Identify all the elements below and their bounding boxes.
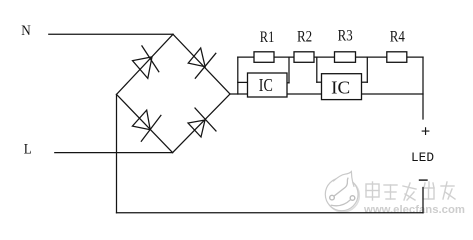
wire v2 node R1-R2	[288, 57, 290, 83]
wire resistor row	[238, 56, 423, 58]
wire bridge side bottom-right	[173, 94, 230, 153]
wire v4 node R3-R4	[366, 57, 368, 82]
svg-text:R4: R4	[390, 26, 405, 45]
wire L input	[55, 152, 173, 154]
svg-text:R2: R2	[297, 26, 312, 45]
wire bridge side top-right	[173, 34, 230, 94]
wire IC1 right pin stub	[287, 82, 289, 84]
resistor R2	[294, 52, 314, 63]
wire N input	[49, 33, 173, 35]
svg-text:+: +	[421, 124, 431, 142]
watermark logo node B	[350, 196, 355, 201]
wire IC2 right pin stub	[362, 81, 368, 83]
wire negative drop	[116, 94, 118, 212]
diode D2	[188, 48, 216, 78]
watermark logo flame	[334, 172, 354, 187]
svg-text:www.elecfans.com: www.elecfans.com	[363, 204, 465, 216]
wire bridge side bottom-left	[117, 94, 173, 152]
svg-text:LED: LED	[411, 150, 434, 165]
svg-text:N: N	[21, 23, 31, 39]
LED minus terminal	[420, 179, 428, 181]
watermark logo circle (elecfans)	[327, 179, 360, 212]
wire positive rail	[230, 93, 423, 95]
wire bottom rail	[117, 212, 424, 214]
resistor R4	[387, 52, 407, 63]
wire v3 node R2-R3	[316, 57, 318, 82]
svg-text:R3: R3	[338, 26, 353, 45]
op-amp IC U2 box	[322, 74, 362, 100]
wire v1 node before R1	[237, 57, 239, 94]
resistor R3	[335, 52, 356, 63]
watermark logo traces	[331, 178, 350, 206]
watermark logo node A	[330, 195, 335, 200]
wire IC1 left pin stub	[238, 81, 248, 83]
diode D4	[188, 108, 216, 137]
svg-text:L: L	[24, 141, 32, 157]
wire right drop upper	[422, 57, 424, 119]
watermark text 电子发烧友 (faux glyphs)	[366, 182, 455, 200]
wire right drop lower	[422, 188, 424, 213]
svg-text:R1: R1	[260, 27, 275, 46]
wire IC2 left pin stub	[317, 81, 322, 83]
op-amp IC U1 box	[248, 73, 288, 97]
wire bridge side top-left	[117, 34, 174, 94]
svg-text:IC: IC	[331, 78, 350, 98]
svg-text:IC: IC	[259, 75, 273, 95]
diode D3	[132, 110, 161, 141]
diode D1	[133, 46, 159, 79]
resistor R1	[254, 52, 274, 63]
